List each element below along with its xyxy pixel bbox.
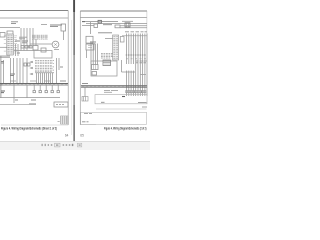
wire [84, 87, 86, 96]
wire [82, 25, 94, 27]
lower frame box [95, 95, 147, 104]
wire [22, 58, 24, 83]
label BATT FEED [11, 22, 18, 24]
label HARNESS [104, 91, 118, 93]
gutter secondary shadow [71, 20, 73, 135]
bus wire pair [0, 56, 10, 57]
connector J2 [113, 35, 119, 60]
relay K4 [86, 44, 94, 50]
wire [16, 58, 18, 83]
wire [0, 46, 7, 48]
label FUSE BLOCK [103, 24, 112, 26]
ground G2 [39, 91, 41, 93]
wire [3, 60, 5, 83]
resistor R1 [94, 24, 98, 28]
terminal strip TB1 [21, 46, 32, 49]
wire [17, 44, 19, 56]
ground lug G6 [1, 91, 5, 93]
label C108 [60, 66, 63, 68]
label rev [142, 106, 147, 108]
wire [121, 60, 123, 72]
pager first button [42, 144, 43, 146]
wire [132, 34, 134, 97]
main harness bus right [81, 86, 147, 87]
switch S1 [33, 46, 38, 51]
wire [0, 27, 20, 29]
wire labels row [126, 58, 146, 60]
connector arrow [31, 73, 34, 75]
pager prev button [45, 144, 46, 146]
label note [29, 103, 36, 105]
label C109 [60, 80, 66, 82]
wire [144, 34, 146, 97]
wire [35, 72, 54, 74]
ground G4 [51, 91, 53, 93]
wire [86, 50, 88, 58]
wire [26, 28, 28, 51]
pager page link 4 [66, 144, 68, 146]
wire [14, 50, 34, 52]
label by stamp [58, 121, 60, 123]
label IGN SW [50, 25, 62, 27]
pin numbers J1 [4, 36, 6, 51]
control module U1 [34, 51, 52, 59]
wire [33, 39, 36, 45]
wire [120, 27, 147, 29]
diode D2 [28, 63, 31, 66]
label B+ [82, 21, 85, 23]
instrument cluster box [91, 61, 117, 76]
wire [63, 31, 65, 40]
gauge unit [92, 65, 99, 70]
wire [19, 58, 21, 83]
wire [23, 28, 25, 51]
right page inner header rule [80, 17, 147, 19]
breaker CB1 [120, 37, 124, 43]
pager current page box [55, 143, 60, 147]
page gutter shadow between the two scanned pages [73, 0, 75, 141]
connector arrow [31, 61, 34, 63]
switch S2 [41, 48, 46, 52]
ground G5 [57, 91, 59, 93]
wire [29, 28, 31, 48]
left page top border rule [0, 10, 68, 12]
wire [14, 85, 58, 103]
pin labels J1 [14, 36, 17, 53]
relay K2 [0, 33, 5, 38]
wire [142, 34, 144, 97]
wire [57, 58, 60, 83]
wire [128, 34, 130, 97]
wire [10, 58, 12, 83]
indicator block [103, 60, 111, 66]
splice table [35, 61, 54, 72]
label GND [17, 52, 20, 54]
svg-text:Figure 4. Wiring Diagram/Schem: Figure 4. Wiring Diagram/Schematic (Shee… [1, 126, 57, 130]
main harness bus [0, 84, 68, 86]
pager page link 3 [63, 144, 65, 146]
wire [90, 22, 92, 34]
connector J1 [7, 34, 14, 55]
wire [126, 34, 128, 97]
wire [130, 34, 132, 97]
left page inner header rule [0, 17, 68, 19]
ground G3 [45, 91, 47, 93]
wire [122, 35, 147, 37]
right page top border rule [80, 10, 147, 12]
wire [26, 58, 28, 83]
lamp L1 [92, 72, 97, 76]
viewer bottom divider [0, 140, 150, 142]
motor M1 [52, 41, 59, 48]
wire [30, 43, 52, 45]
label C103 [19, 37, 27, 39]
fuse block F3 [82, 97, 88, 102]
title stamp box left [61, 116, 69, 124]
left page bottom frame border [1, 124, 68, 126]
wire color codes [136, 61, 147, 63]
pager page link 5 [69, 144, 71, 146]
label C201 [15, 41, 28, 43]
pager next button [72, 144, 74, 146]
terminal row [126, 91, 146, 93]
circuit labels row [125, 31, 147, 33]
fusible link FL1 [98, 20, 102, 23]
fuse F1 [61, 24, 66, 31]
label C401 [140, 74, 146, 76]
label JUNCTION [98, 32, 112, 34]
label M1 [54, 49, 59, 51]
wire [137, 34, 139, 97]
pager page link 2 [51, 144, 53, 146]
wire [15, 44, 17, 56]
wire [13, 58, 15, 83]
wire [146, 34, 148, 97]
relay K1 [7, 31, 13, 36]
svg-text:64: 64 [65, 134, 69, 138]
svg-text:65: 65 [80, 134, 84, 138]
pager last button [77, 143, 81, 147]
gutter shadow bottom segment [73, 105, 75, 141]
wire [122, 71, 136, 73]
label C402 [82, 83, 88, 85]
svg-text:Figure 4. Wiring Diagram/Schem: Figure 4. Wiring Diagram/Schematic (2 of… [104, 126, 147, 130]
wire [120, 25, 147, 27]
wire [96, 108, 147, 110]
wire [0, 104, 36, 106]
note box label [82, 114, 92, 122]
connector arrow [31, 67, 34, 69]
wire [82, 21, 118, 23]
fuse F2 [115, 25, 120, 28]
label C202 [10, 74, 15, 76]
gutter shadow top dark segment [73, 0, 75, 12]
wire [0, 97, 60, 99]
left page right frame border [67, 11, 69, 126]
right page right frame border [146, 11, 148, 40]
wire [32, 28, 34, 44]
label HOT AT ALL TIMES [41, 24, 47, 26]
label note right [138, 102, 147, 104]
gutter shadow upper segment [73, 12, 75, 55]
junction box JB1 [54, 102, 68, 107]
left page left frame border (partial) [0, 56, 2, 98]
label S401 [101, 101, 105, 103]
ignition switch S3 [125, 23, 130, 27]
ground G1 [33, 91, 35, 93]
relay K3 [86, 36, 93, 43]
label G302 [31, 99, 36, 101]
label G401 [122, 96, 125, 98]
wire [86, 23, 147, 25]
splice dots row [126, 54, 146, 56]
bus wire labels [10, 80, 50, 82]
label A1 [1, 62, 4, 64]
right page bottom frame border [80, 124, 96, 126]
diode D1 [24, 63, 27, 66]
label block [101, 54, 113, 59]
wire [91, 44, 98, 65]
wire [135, 34, 137, 97]
wire [139, 34, 141, 97]
label C301 [90, 42, 96, 44]
wire [37, 73, 53, 83]
label IGN [122, 20, 133, 22]
viewer bottom toolbar band [0, 142, 150, 150]
label G301 [15, 99, 18, 101]
right page left frame border [79, 11, 81, 125]
wire [20, 28, 22, 51]
title stamp box right [81, 112, 147, 124]
harness bundle W1 [32, 35, 48, 39]
pager page link 1 [48, 144, 49, 146]
wire [105, 38, 113, 40]
